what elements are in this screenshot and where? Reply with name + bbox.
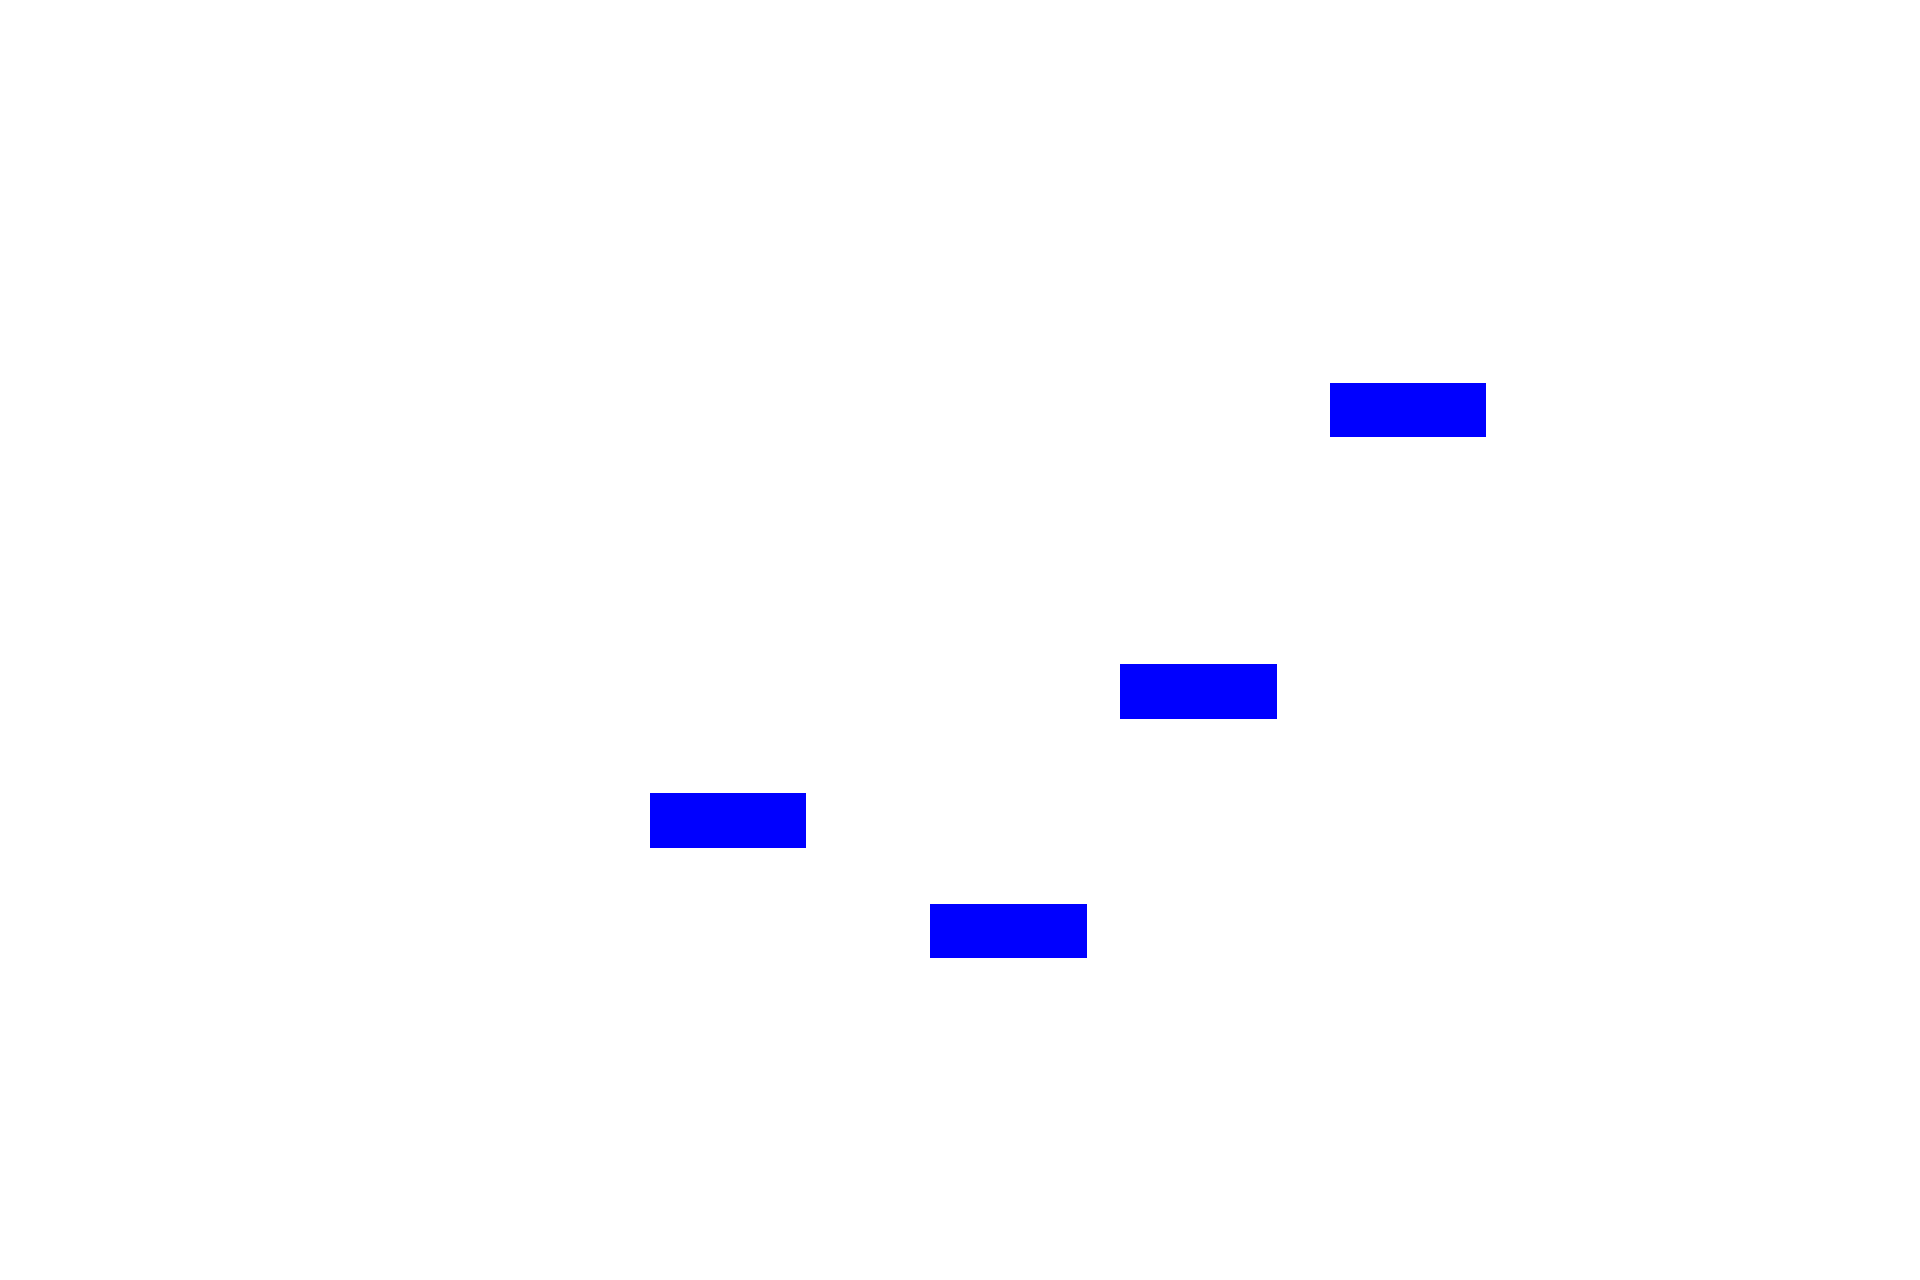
blue rectangle 2 (middle right) [1120,664,1277,719]
blue rectangle 1 (top right) [1330,383,1486,437]
blue rectangle 3 (center left) [650,793,806,848]
blue rectangle 4 (bottom center) [930,904,1087,958]
